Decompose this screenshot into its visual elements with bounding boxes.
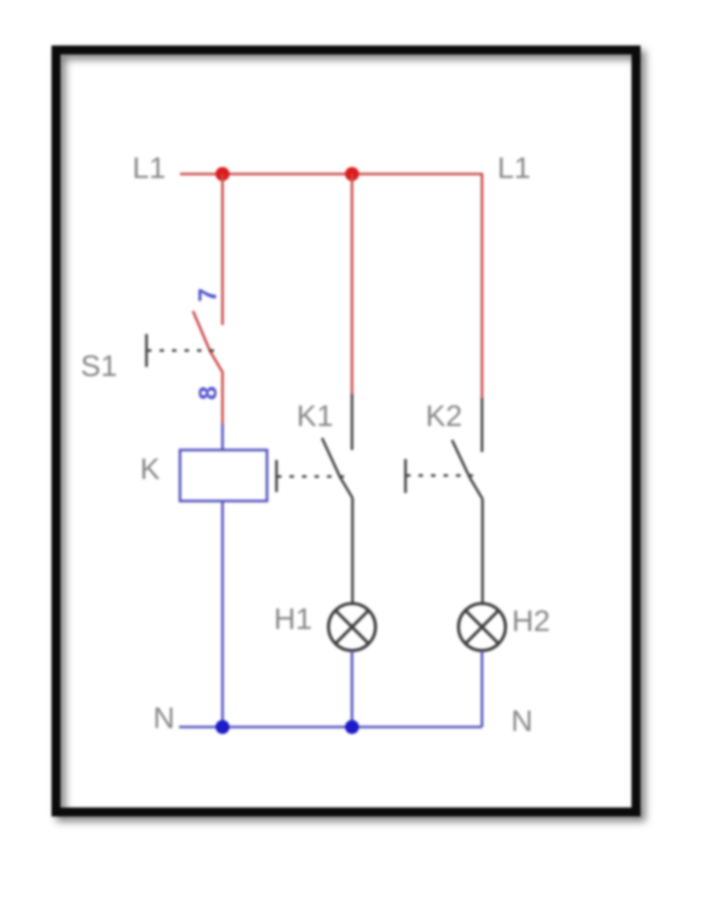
wire (black, K1 to lamp H1) xyxy=(351,498,354,604)
junction dot (red, L1/K1 branch) xyxy=(345,167,359,181)
K2 actuator: dashed link xyxy=(406,474,473,477)
junction dot (blue, N/coil branch) xyxy=(216,720,230,734)
svg-text:K: K xyxy=(140,453,160,486)
wire (blue, H2 to N rail) xyxy=(481,651,484,727)
node L1 label left xyxy=(132,152,165,185)
svg-text:H2: H2 xyxy=(512,605,550,638)
lamp H2 label xyxy=(512,605,550,638)
svg-text:L1: L1 xyxy=(497,152,530,185)
wire (red, S1 pin 8 down) xyxy=(221,373,224,424)
contact K2 label xyxy=(426,400,463,433)
node N label left xyxy=(153,702,175,735)
svg-text:7: 7 xyxy=(194,288,222,302)
wire L1 rail (red horizontal) xyxy=(180,173,483,176)
wire (blue, H1 to N rail) xyxy=(351,651,354,727)
K2 actuator: T-bar xyxy=(404,459,407,493)
pin 8 label xyxy=(195,386,223,400)
junction dot (red, L1/S1 branch) xyxy=(216,167,230,181)
S1 actuator: T-bar xyxy=(145,334,148,367)
svg-text:H1: H1 xyxy=(274,603,312,636)
svg-text:L1: L1 xyxy=(132,152,165,185)
junction dot (blue, N/H1 branch) xyxy=(345,720,359,734)
K1 actuator: dashed link xyxy=(277,475,344,478)
contact K1 (NO contact, black) xyxy=(322,394,353,498)
node L1 label right xyxy=(497,152,530,185)
wire (blue, coil K to N rail) xyxy=(221,501,224,727)
wire (black, K2 to lamp H2) xyxy=(481,499,484,604)
coil K label xyxy=(140,453,160,486)
contact K1 label xyxy=(297,400,334,433)
svg-text:8: 8 xyxy=(195,386,223,400)
svg-text:S1: S1 xyxy=(81,350,118,383)
K1 actuator: T-bar xyxy=(275,460,278,492)
wire (red, L1 down to S1 pin 7) xyxy=(221,174,224,325)
switch S1 label xyxy=(81,350,118,383)
lamp H1 xyxy=(329,604,376,651)
svg-text:K2: K2 xyxy=(426,400,463,433)
border frame (decorative) xyxy=(56,50,636,812)
node N label right xyxy=(511,705,533,738)
lamp H1 label xyxy=(274,603,312,636)
svg-text:N: N xyxy=(153,702,175,735)
switch S1 (NO pushbutton contact, red movable contact) xyxy=(193,311,223,373)
wire (red, L1 down to contact K1) xyxy=(351,174,354,394)
svg-text:N: N xyxy=(511,705,533,738)
svg-text:K1: K1 xyxy=(297,400,334,433)
relay coil K xyxy=(180,450,267,501)
wire N rail (blue horizontal) xyxy=(179,726,482,729)
wire (red, L1 down to contact K2) xyxy=(481,174,484,398)
contact K2 (NO contact, black) xyxy=(452,398,483,499)
wire (blue, into coil K) xyxy=(221,424,224,450)
lamp H2 xyxy=(459,604,506,651)
S1 actuator: dashed link xyxy=(147,349,214,352)
pin 7 label xyxy=(194,288,222,302)
